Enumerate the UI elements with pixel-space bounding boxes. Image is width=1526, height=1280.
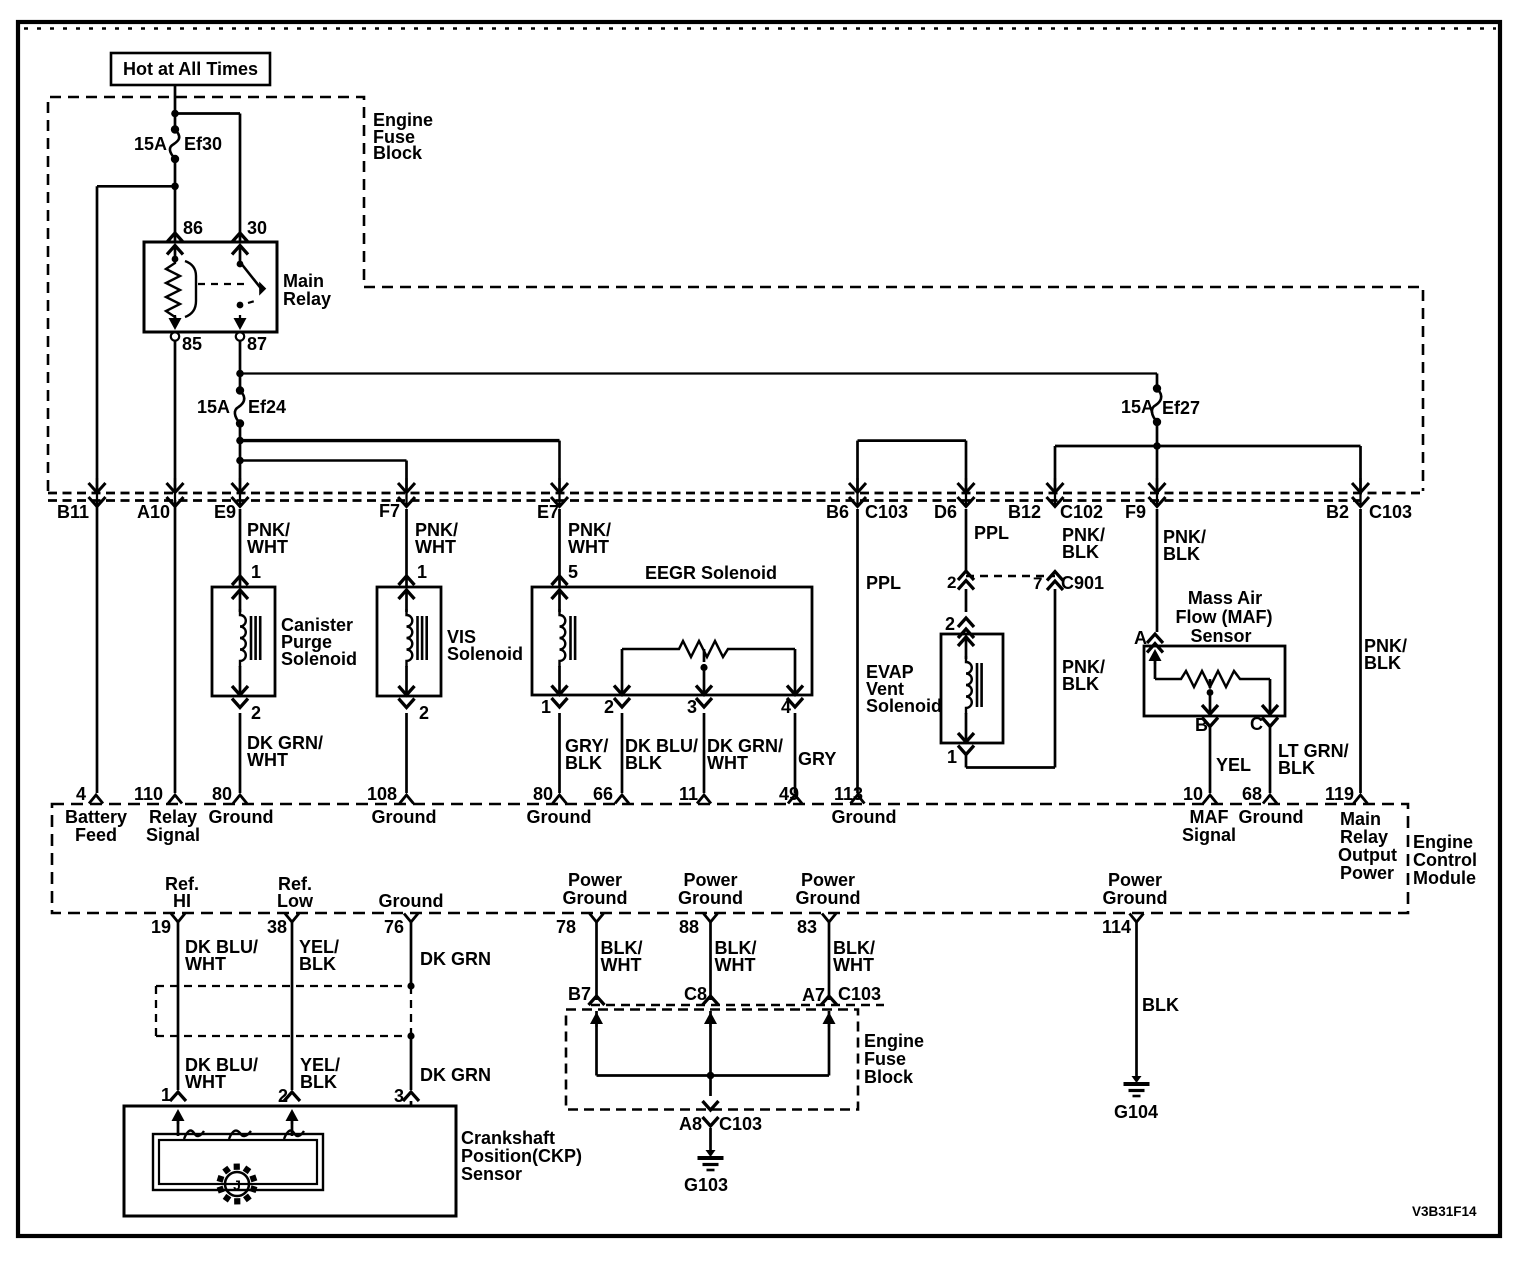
svg-text:1: 1	[417, 562, 427, 582]
svg-text:A7: A7	[802, 985, 825, 1005]
svg-text:Solenoid: Solenoid	[866, 696, 942, 716]
svg-text:10: 10	[1183, 784, 1203, 804]
svg-text:Ground: Ground	[1103, 888, 1168, 908]
svg-text:WHT: WHT	[415, 537, 456, 557]
svg-text:Solenoid: Solenoid	[447, 644, 523, 664]
svg-text:Power: Power	[1108, 870, 1162, 890]
svg-text:Relay: Relay	[1340, 827, 1388, 847]
svg-text:Ground: Ground	[372, 807, 437, 827]
svg-text:GRY: GRY	[798, 749, 836, 769]
svg-text:Ground: Ground	[379, 891, 444, 911]
svg-text:80: 80	[533, 784, 553, 804]
svg-text:WHT: WHT	[715, 955, 756, 975]
svg-text:PPL: PPL	[974, 523, 1009, 543]
svg-text:WHT: WHT	[833, 955, 874, 975]
svg-text:F9: F9	[1125, 502, 1146, 522]
svg-text:5: 5	[568, 562, 578, 582]
svg-text:Output: Output	[1338, 845, 1397, 865]
svg-text:Ground: Ground	[563, 888, 628, 908]
svg-text:BLK: BLK	[1142, 995, 1179, 1015]
svg-text:BLK: BLK	[565, 753, 602, 773]
svg-text:V3B31F14: V3B31F14	[1412, 1204, 1477, 1219]
svg-text:113: 113	[834, 784, 863, 804]
svg-text:2: 2	[604, 697, 614, 717]
svg-text:Ground: Ground	[832, 807, 897, 827]
svg-text:Hot at All Times: Hot at All Times	[123, 59, 258, 79]
svg-text:C102: C102	[1060, 502, 1103, 522]
svg-text:3: 3	[394, 1086, 404, 1106]
svg-text:BLK: BLK	[625, 753, 662, 773]
svg-text:BLK: BLK	[300, 1072, 337, 1092]
svg-text:WHT: WHT	[185, 954, 226, 974]
svg-text:86: 86	[183, 218, 203, 238]
svg-text:BLK: BLK	[299, 954, 336, 974]
svg-text:BLK: BLK	[1163, 544, 1200, 564]
svg-text:B12: B12	[1008, 502, 1041, 522]
svg-text:49: 49	[779, 784, 799, 804]
svg-text:1: 1	[251, 562, 261, 582]
svg-text:Sensor: Sensor	[1190, 626, 1251, 646]
svg-text:68: 68	[1242, 784, 1262, 804]
svg-text:Engine: Engine	[864, 1031, 924, 1051]
svg-text:Ground: Ground	[678, 888, 743, 908]
svg-text:WHT: WHT	[185, 1072, 226, 1092]
svg-text:PPL: PPL	[866, 573, 901, 593]
svg-text:BLK: BLK	[1364, 653, 1401, 673]
svg-text:Signal: Signal	[1182, 825, 1236, 845]
svg-text:B6: B6	[826, 502, 849, 522]
svg-text:C103: C103	[1369, 502, 1412, 522]
svg-text:Main: Main	[283, 271, 324, 291]
svg-text:1: 1	[947, 747, 957, 767]
svg-text:BLK: BLK	[1062, 674, 1099, 694]
svg-text:11: 11	[679, 784, 698, 804]
svg-text:A10: A10	[137, 502, 170, 522]
svg-text:4: 4	[781, 697, 791, 717]
svg-text:B7: B7	[568, 984, 591, 1004]
svg-text:MAF: MAF	[1190, 807, 1229, 827]
svg-text:A8: A8	[679, 1114, 702, 1134]
svg-text:E7: E7	[537, 502, 559, 522]
svg-text:3: 3	[687, 697, 697, 717]
svg-text:Power: Power	[683, 870, 737, 890]
svg-text:Relay: Relay	[149, 807, 197, 827]
svg-text:Module: Module	[1413, 868, 1476, 888]
svg-text:Power: Power	[801, 870, 855, 890]
svg-text:HI: HI	[173, 891, 191, 911]
svg-text:Engine: Engine	[1413, 832, 1473, 852]
svg-text:1: 1	[161, 1085, 171, 1105]
svg-text:Power: Power	[568, 870, 622, 890]
svg-text:DK GRN: DK GRN	[420, 949, 491, 969]
svg-text:Crankshaft: Crankshaft	[461, 1128, 555, 1148]
svg-text:15A: 15A	[134, 134, 167, 154]
svg-text:Flow (MAF): Flow (MAF)	[1176, 607, 1273, 627]
svg-text:C103: C103	[838, 984, 881, 1004]
svg-text:Ground: Ground	[796, 888, 861, 908]
svg-text:78: 78	[556, 917, 576, 937]
svg-text:BLK: BLK	[1062, 542, 1099, 562]
svg-text:WHT: WHT	[601, 955, 642, 975]
svg-text:114: 114	[1102, 917, 1131, 937]
svg-text:87: 87	[247, 334, 267, 354]
svg-text:7: 7	[1033, 574, 1042, 593]
svg-text:WHT: WHT	[247, 750, 288, 770]
svg-text:Battery: Battery	[65, 807, 127, 827]
svg-text:Ef24: Ef24	[248, 397, 286, 417]
svg-text:2: 2	[419, 703, 429, 723]
svg-text:Ground: Ground	[527, 807, 592, 827]
svg-text:B2: B2	[1326, 502, 1349, 522]
svg-text:Low: Low	[277, 891, 314, 911]
svg-text:Control: Control	[1413, 850, 1477, 870]
svg-text:83: 83	[797, 917, 817, 937]
svg-text:Relay: Relay	[283, 289, 331, 309]
svg-text:Position(CKP): Position(CKP)	[461, 1146, 582, 1166]
svg-text:Main: Main	[1340, 809, 1381, 829]
svg-text:76: 76	[384, 917, 404, 937]
svg-text:19: 19	[151, 917, 171, 937]
svg-text:38: 38	[267, 917, 287, 937]
svg-text:Ef30: Ef30	[184, 134, 222, 154]
svg-text:4: 4	[76, 784, 86, 804]
svg-text:88: 88	[679, 917, 699, 937]
svg-text:15A: 15A	[197, 397, 230, 417]
svg-text:Block: Block	[373, 143, 423, 163]
svg-text:Fuse: Fuse	[864, 1049, 906, 1069]
svg-text:BLK: BLK	[1278, 758, 1315, 778]
svg-text:Block: Block	[864, 1067, 914, 1087]
svg-text:C: C	[1250, 714, 1263, 734]
svg-text:Solenoid: Solenoid	[281, 649, 357, 669]
svg-text:2: 2	[251, 703, 261, 723]
svg-text:C103: C103	[865, 502, 908, 522]
svg-text:EEGR Solenoid: EEGR Solenoid	[645, 563, 777, 583]
svg-text:2: 2	[947, 573, 956, 592]
svg-text:B11: B11	[57, 502, 89, 522]
svg-text:F7: F7	[379, 501, 400, 521]
svg-text:Ef27: Ef27	[1162, 398, 1200, 418]
svg-text:85: 85	[182, 334, 202, 354]
svg-text:Power: Power	[1340, 863, 1394, 883]
svg-text:YEL: YEL	[1216, 755, 1251, 775]
svg-text:C103: C103	[719, 1114, 762, 1134]
svg-text:Ground: Ground	[1239, 807, 1304, 827]
svg-text:2: 2	[945, 614, 955, 634]
svg-text:66: 66	[593, 784, 613, 804]
svg-text:30: 30	[247, 218, 267, 238]
svg-text:B: B	[1195, 715, 1208, 735]
svg-text:15A: 15A	[1121, 397, 1154, 417]
svg-text:WHT: WHT	[707, 753, 748, 773]
svg-text:Sensor: Sensor	[461, 1164, 522, 1184]
svg-text:G103: G103	[684, 1175, 728, 1195]
svg-text:WHT: WHT	[247, 537, 288, 557]
svg-text:1: 1	[541, 697, 551, 717]
svg-text:Ground: Ground	[209, 807, 274, 827]
svg-text:119: 119	[1325, 784, 1354, 804]
svg-text:C8: C8	[684, 984, 707, 1004]
svg-text:E9: E9	[214, 502, 236, 522]
svg-text:C901: C901	[1061, 573, 1104, 593]
svg-text:108: 108	[367, 784, 397, 804]
svg-text:110: 110	[134, 784, 163, 804]
svg-text:D6: D6	[934, 502, 957, 522]
svg-text:Feed: Feed	[75, 825, 117, 845]
svg-text:J: J	[233, 1177, 241, 1193]
svg-text:DK GRN: DK GRN	[420, 1065, 491, 1085]
svg-text:80: 80	[212, 784, 232, 804]
svg-text:G104: G104	[1114, 1102, 1158, 1122]
svg-text:Mass Air: Mass Air	[1188, 588, 1262, 608]
svg-text:WHT: WHT	[568, 537, 609, 557]
svg-text:Signal: Signal	[146, 825, 200, 845]
